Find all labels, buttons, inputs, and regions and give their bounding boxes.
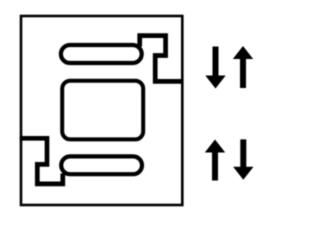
- arrow down (bottom-right of pair): [233, 139, 253, 179]
- top-right hook (crank from top slot to right frame edge): [140, 36, 184, 82]
- middle rounded rectangle: [62, 81, 143, 140]
- bottom-left hook (crank from bottom slot to left frame edge): [20, 138, 63, 184]
- arrow up (top-right of pair): [233, 46, 253, 88]
- bottom stadium slot: [61, 156, 142, 174]
- top stadium slot: [61, 45, 142, 63]
- outer frame rectangle: [21, 16, 182, 205]
- arrow down (top-left of pair): [205, 47, 225, 89]
- arrow up (bottom-left of pair): [205, 140, 225, 181]
